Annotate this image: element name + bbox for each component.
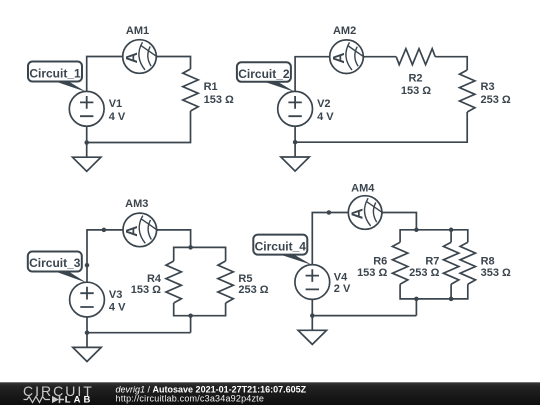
svg-text:2 V: 2 V [334, 283, 351, 295]
svg-text:AM1: AM1 [126, 25, 149, 37]
svg-text:353 Ω: 353 Ω [481, 267, 511, 279]
wire: C4 R7 top stem [450, 230, 452, 242]
node: C4 bottom bus junction at drop [414, 297, 419, 302]
svg-text:R2: R2 [408, 72, 422, 84]
wire: C4 bottom wire [312, 299, 416, 315]
svg-text:A: A [350, 208, 367, 219]
wire: C4 R7 bottom stem [450, 284, 452, 299]
wire: C4 ground stem [311, 316, 313, 331]
svg-text:4 V: 4 V [109, 301, 126, 313]
logo diode bar [60, 396, 65, 403]
svg-text:http://circuitlab.com/c3a34a92: http://circuitlab.com/c3a34a92p4zte [116, 393, 265, 403]
callout Circuit_1 box [28, 62, 82, 82]
ground (circuit 4) [298, 330, 326, 344]
wire: C3 drop from bottom bus to bottom wire [190, 316, 192, 333]
node: C3 top bus junction [188, 245, 193, 250]
wire: C1 ground stem [86, 143, 88, 158]
svg-text:AM3: AM3 [125, 198, 148, 210]
node: C1 bottom junction [84, 140, 89, 145]
resistor R1 [183, 69, 198, 111]
wire: C4 drop from bottom bus to bottom wire [415, 299, 417, 316]
callout Circuit_2 box [237, 62, 291, 82]
wire: C3 bottom wire [87, 317, 191, 333]
node: C4 top wire junction [327, 210, 332, 215]
resistor R3 [460, 70, 475, 112]
svg-text:V2: V2 [317, 98, 330, 110]
logo diode glyph [52, 396, 59, 403]
svg-text:AM4: AM4 [351, 183, 375, 195]
callout Circuit_3 pointer [53, 271, 87, 283]
wire: C3 top-left L from V3 top to drop [87, 230, 191, 282]
footer bar background [0, 382, 540, 405]
callout Circuit_4 box [253, 235, 307, 255]
svg-text:153 Ω: 153 Ω [357, 267, 387, 279]
wire: C1 bottom from R1 bottom to V1 bottom [87, 111, 191, 143]
ammeter AM2 [330, 40, 365, 74]
svg-text:A: A [124, 226, 141, 237]
wire: C3 top bus [174, 247, 226, 261]
callout Circuit_2 pointer [262, 81, 295, 92]
resistor R5 [218, 261, 233, 303]
node: C4 bottom wire junction [310, 313, 315, 318]
node: C3 top wire junction [102, 228, 107, 233]
wire: C1 top-left L from V1 top to R1 top [87, 57, 191, 92]
svg-text:R6: R6 [373, 256, 387, 268]
svg-text:A: A [124, 52, 141, 63]
ground (circuit 3) [73, 347, 101, 361]
svg-text:A: A [331, 52, 348, 63]
svg-text:R7: R7 [425, 256, 439, 268]
svg-text:153 Ω: 153 Ω [131, 284, 161, 296]
wire: C4 top-left L from V4 top to drop [312, 213, 416, 265]
svg-text:253 Ω: 253 Ω [481, 94, 511, 106]
resistor R6 [392, 242, 407, 284]
wire: C2 ground stem [294, 142, 296, 157]
svg-text:AM2: AM2 [333, 25, 356, 37]
svg-text:V4: V4 [334, 271, 348, 283]
ground (circuit 2) [281, 157, 309, 171]
voltage source V3 [70, 282, 105, 317]
svg-text:4 V: 4 V [317, 111, 334, 123]
callout Circuit_1 pointer [53, 81, 87, 93]
wire: C3 ground stem [86, 333, 88, 348]
svg-text:V1: V1 [109, 98, 122, 110]
resistor R4 [166, 261, 181, 303]
svg-text:LAB: LAB [65, 395, 94, 405]
node: C3 left wire junction [85, 263, 90, 268]
callout Circuit_3 box [28, 252, 82, 272]
svg-text:Circuit_2: Circuit_2 [238, 67, 290, 81]
svg-text:153 Ω: 153 Ω [204, 94, 234, 106]
svg-text:V3: V3 [109, 289, 122, 301]
node: C3 bottom wire junction [85, 330, 90, 335]
ammeter AM3 [123, 213, 158, 247]
ground (circuit 1) [73, 157, 101, 171]
wire: C4 top bus [400, 230, 468, 242]
wire: C2 bottom from R3 bottom to V2 bottom [295, 112, 467, 142]
node: C4 bottom bus junction at R7 [449, 297, 454, 302]
voltage source V1 [69, 91, 104, 126]
resistor R2 [396, 49, 435, 65]
svg-text:Circuit_1: Circuit_1 [29, 66, 81, 80]
node: C4 top bus junction at R7 [449, 228, 454, 233]
node: C4 top bus junction at drop [414, 228, 419, 233]
svg-text:153 Ω: 153 Ω [401, 85, 431, 97]
ammeter AM1 [123, 40, 158, 74]
callout Circuit_4 pointer [279, 254, 313, 265]
wire: C2 from R2 right to R3 top [435, 57, 467, 70]
svg-text:253 Ω: 253 Ω [238, 284, 268, 296]
wire: C3 bottom bus [174, 303, 226, 316]
svg-text:4 V: 4 V [109, 111, 126, 123]
node: C2 bottom junction [293, 140, 298, 145]
svg-text:R1: R1 [204, 81, 218, 93]
voltage source V4 [295, 265, 330, 300]
logo zigzag resistor glyph [24, 397, 51, 403]
wire: C4 bottom bus [400, 284, 468, 299]
node: C3 bottom bus junction [188, 313, 193, 318]
voltage source V2 [278, 91, 313, 126]
svg-text:Circuit_3: Circuit_3 [29, 256, 81, 270]
svg-text:Circuit_4: Circuit_4 [255, 239, 307, 253]
svg-text:253 Ω: 253 Ω [409, 267, 439, 279]
resistor R8 [460, 242, 475, 284]
svg-text:R3: R3 [481, 81, 495, 93]
resistor R7 [443, 242, 458, 284]
svg-text:R8: R8 [481, 256, 495, 268]
wire: C2 top-left L from V2 top to R2 left [295, 57, 396, 92]
ammeter AM4 [348, 196, 383, 230]
